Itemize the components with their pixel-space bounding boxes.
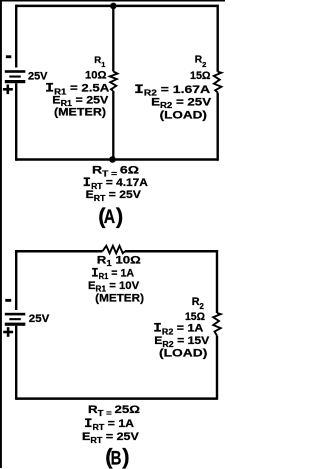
svg-text:10Ω: 10Ω	[85, 70, 107, 82]
svg-text:ERT = 25V: ERT = 25V	[86, 189, 142, 203]
battery A minus sign	[6, 55, 11, 58]
resistor R2 zigzag (circuit A)	[214, 72, 222, 93]
wire: circuit A left rail upper	[15, 5, 17, 68]
node: junction top of R1 branch	[110, 3, 117, 10]
resistor R2 zigzag (circuit B)	[213, 313, 221, 336]
resistor R1 zigzag (circuit B)	[103, 246, 126, 254]
caption (B)	[105, 444, 129, 469]
svg-text:15Ω: 15Ω	[190, 70, 211, 82]
wire: circuit A right rail lower	[216, 93, 218, 161]
wire: circuit B top rail left	[16, 250, 103, 253]
wire: circuit A bottom rail	[16, 158, 218, 161]
svg-text:B: B	[111, 448, 122, 469]
svg-text:R1: R1	[94, 55, 105, 69]
wire: circuit A right rail upper	[216, 5, 218, 72]
svg-text:15Ω: 15Ω	[185, 311, 205, 323]
wire: R1 branch upper	[112, 6, 114, 72]
node: junction bottom of R1 branch	[109, 156, 116, 163]
svg-text:(METER): (METER)	[54, 107, 106, 119]
svg-text:): )	[122, 444, 129, 469]
svg-text:): )	[116, 203, 123, 228]
svg-text:ER2 = 25V: ER2 = 25V	[151, 96, 212, 110]
wire: circuit B bottom rail	[16, 397, 217, 400]
wire: circuit B right rail upper	[216, 250, 218, 313]
battery 25V (circuit B)	[5, 313, 26, 326]
svg-text:ERT = 25V: ERT = 25V	[82, 431, 140, 445]
wire: R1 branch lower	[112, 91, 114, 160]
svg-text:25V: 25V	[29, 313, 50, 325]
svg-text:25V: 25V	[28, 71, 48, 83]
wire: circuit B top rail right	[125, 250, 217, 253]
wire: circuit A left rail lower	[15, 83, 17, 161]
wire: circuit A top rail	[16, 5, 218, 8]
svg-text:R2: R2	[192, 296, 205, 311]
resistor R1 zigzag (circuit A)	[110, 72, 118, 92]
svg-text:RT = 25Ω: RT = 25Ω	[88, 404, 140, 418]
svg-text:R1 10Ω: R1 10Ω	[97, 254, 141, 268]
svg-text:(METER): (METER)	[95, 293, 144, 305]
svg-text:IRT = 1A: IRT = 1A	[84, 417, 134, 432]
svg-text:(LOAD): (LOAD)	[160, 110, 208, 122]
wire: circuit B left rail lower	[15, 326, 17, 400]
wire: circuit B right rail lower	[216, 336, 218, 400]
battery 25V (circuit A)	[5, 70, 26, 83]
svg-text:A: A	[104, 207, 116, 228]
caption (A)	[98, 203, 123, 228]
battery B plus sign	[3, 327, 13, 337]
wire: circuit B left rail upper	[15, 250, 17, 310]
battery B minus sign	[5, 299, 11, 302]
battery A plus sign	[3, 85, 13, 95]
svg-text:R2: R2	[195, 55, 207, 69]
svg-text:(LOAD): (LOAD)	[159, 348, 208, 360]
